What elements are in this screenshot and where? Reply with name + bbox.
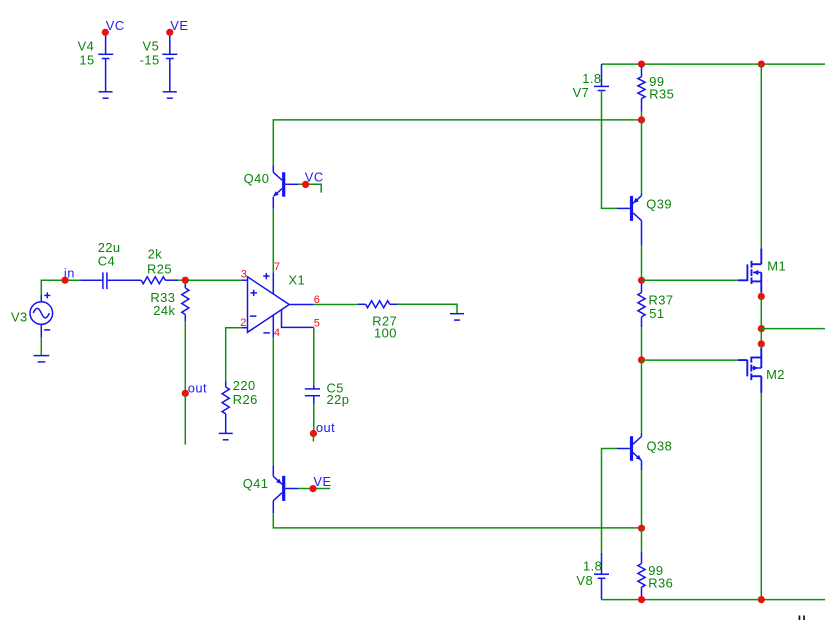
svg-text:220: 220 — [233, 378, 256, 393]
wire R35 to node — [641, 112, 643, 120]
wire R33 to node out — [184, 321, 186, 390]
wire R37 to node — [641, 327, 643, 360]
svg-text:X1: X1 — [289, 273, 306, 288]
svg-text:M1: M1 — [767, 259, 786, 274]
mosfet M2 — [738, 348, 785, 393]
svg-text:-15: -15 — [140, 53, 160, 68]
voltage source V5 — [140, 32, 178, 92]
transistor Q40 — [244, 166, 298, 209]
transistor Q39 — [617, 194, 672, 246]
node out — [182, 381, 207, 397]
wire stub below node out — [312, 434, 314, 442]
svg-text:V3: V3 — [11, 309, 28, 324]
wire C5 to node out — [313, 404, 315, 431]
svg-text:Q38: Q38 — [647, 439, 673, 454]
svg-text:7: 7 — [274, 261, 280, 273]
wire op-amp output to R27 — [314, 304, 358, 306]
wire M1 source node to mid node — [760, 296, 762, 328]
wire Q40 base to node VC — [298, 184, 321, 192]
node VE at V5 — [166, 18, 188, 36]
wire op-amp pin 4 to Q41 emitter — [272, 337, 274, 465]
svg-text:R26: R26 — [233, 392, 258, 407]
node top rail at M1 — [758, 61, 765, 68]
svg-text:VC: VC — [106, 18, 125, 33]
svg-text:51: 51 — [649, 306, 664, 321]
resistor R36 — [638, 552, 673, 596]
wire Q38 emitter to node — [641, 470, 643, 525]
node VC at Q40 — [302, 170, 324, 188]
svg-text:22p: 22p — [327, 392, 350, 407]
resistor R26 — [222, 378, 258, 433]
wire op-amp pin 2 to R26 — [226, 328, 242, 381]
svg-text:3: 3 — [241, 269, 247, 281]
wire node to R36 — [641, 528, 643, 552]
node out at C5 — [310, 420, 335, 437]
wire junction to op-amp pin 3 — [188, 279, 242, 281]
svg-text:out: out — [188, 381, 207, 396]
node M1 source — [758, 293, 765, 300]
wire M2 drain to bottom rail — [760, 393, 762, 600]
transistor Q38 — [617, 434, 672, 471]
wire mid node to M2 node — [760, 329, 762, 344]
svg-text:24k: 24k — [153, 303, 175, 318]
transistor Q41 — [243, 465, 298, 513]
mosfet M1 — [738, 248, 786, 292]
svg-text:R35: R35 — [649, 87, 674, 102]
wire M2 gate — [642, 359, 738, 361]
ground of V5 — [163, 92, 177, 98]
svg-text:15: 15 — [79, 53, 94, 68]
wire Q39 emitter to node — [641, 246, 643, 281]
resistor R27 — [358, 301, 398, 341]
node mid rail — [758, 325, 765, 332]
voltage source V7 — [573, 64, 609, 100]
wire Q40 emitter to op-amp pin 7 — [272, 209, 274, 272]
ground of V3 — [34, 356, 50, 362]
wire V7 to Q39 base — [602, 91, 618, 209]
svg-text:100: 100 — [374, 325, 397, 340]
node M2 source — [758, 340, 765, 347]
wire Q41 base to node VE — [298, 488, 330, 490]
svg-text:2k: 2k — [148, 246, 163, 261]
svg-text:R36: R36 — [648, 575, 673, 590]
wire R27 to ground — [398, 304, 458, 313]
node VE at Q41 — [309, 474, 331, 492]
svg-text:R25: R25 — [147, 261, 172, 276]
svg-text:Q40: Q40 — [244, 171, 270, 186]
mid rail wire — [761, 328, 825, 330]
node R37/M2 gate/Q38 — [638, 356, 645, 363]
node bottom rail at R36 — [638, 596, 645, 603]
wire M1 source to node — [760, 292, 762, 296]
wire M1 gate — [642, 279, 738, 281]
svg-text:Q39: Q39 — [646, 197, 672, 212]
node R35/Q39 — [638, 116, 645, 123]
wire V3 bottom to ground — [40, 337, 42, 356]
svg-text:V5: V5 — [143, 39, 160, 54]
capacitor C5 — [305, 380, 350, 407]
wire Q38 base to V8 — [602, 449, 618, 553]
svg-text:C4: C4 — [98, 254, 115, 269]
resistor R33 — [150, 284, 189, 321]
svg-text:VC: VC — [305, 170, 324, 185]
wire node to M2 — [760, 344, 762, 348]
top rail wire — [602, 63, 825, 65]
bottom rail wire — [602, 599, 825, 601]
clipped black text fragment bottom right — [799, 616, 805, 620]
svg-text:1.8: 1.8 — [583, 559, 602, 574]
node Q39/R37/M1 gate — [638, 277, 645, 284]
node bottom rail at M2 — [758, 596, 765, 603]
ground at R27 — [450, 314, 464, 320]
svg-text:M2: M2 — [766, 367, 785, 382]
svg-text:Q41: Q41 — [243, 476, 269, 491]
wire top rail to Q40 collector — [273, 120, 641, 166]
wire op-amp pin 5 to C5 — [313, 327, 315, 385]
op-amp X1 — [242, 272, 314, 337]
node Q38/Q41/R36 — [638, 525, 645, 532]
resistor R35 — [638, 66, 674, 112]
svg-text:5: 5 — [314, 318, 320, 330]
svg-text:VE: VE — [313, 474, 331, 489]
node junction R25/R33 — [182, 277, 189, 284]
voltage source V3 — [11, 292, 53, 337]
node top rail at R35 — [638, 61, 645, 68]
resistor R25 — [141, 246, 182, 283]
node VC at V4 — [102, 18, 125, 36]
wire top rail to M1 drain — [760, 64, 762, 248]
ground of V4 — [99, 92, 113, 98]
svg-text:out: out — [316, 420, 335, 435]
wire R36 to bottom rail — [641, 596, 643, 600]
ground of R26 — [219, 433, 233, 439]
resistor R37 — [638, 284, 674, 328]
capacitor C4 — [80, 240, 141, 289]
wire below node out — [184, 393, 186, 444]
node in — [61, 265, 74, 284]
svg-text:1.8: 1.8 — [582, 71, 601, 86]
voltage source V4 — [78, 32, 114, 92]
wire V3 top to node in — [41, 280, 80, 294]
wire Q41 collector to Q38 emitter node — [273, 513, 641, 528]
wire node to Q38 collector — [641, 360, 643, 434]
svg-text:V8: V8 — [576, 573, 593, 588]
voltage source V8 — [576, 553, 609, 600]
svg-text:V4: V4 — [78, 39, 95, 54]
svg-text:in: in — [64, 265, 75, 280]
svg-text:4: 4 — [274, 327, 280, 339]
wire node to Q39 collector — [641, 120, 643, 194]
svg-text:V7: V7 — [573, 85, 590, 100]
svg-text:VE: VE — [170, 18, 188, 33]
